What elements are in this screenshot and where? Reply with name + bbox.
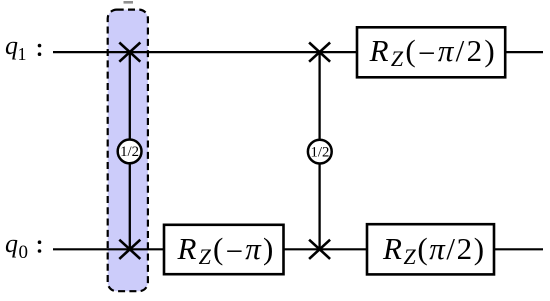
svg-text:1: 1 [18,44,27,64]
svg-text:RZ(−π): RZ(−π) [176,231,275,269]
svg-text:0: 0 [19,242,29,263]
svg-text:1/2: 1/2 [120,144,139,160]
svg-text:q: q [5,31,18,60]
svg-text:RZ(−π/2): RZ(−π/2) [369,33,497,71]
svg-text:1/2: 1/2 [310,144,329,160]
svg-text:q: q [5,229,18,258]
svg-text:RZ(π/2): RZ(π/2) [382,231,486,269]
